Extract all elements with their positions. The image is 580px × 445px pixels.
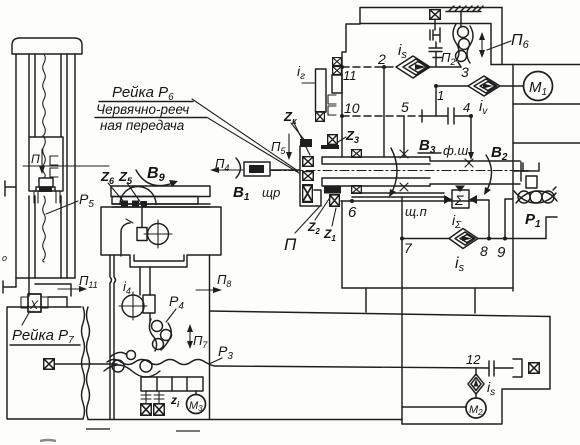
gear pair on shaft 10 [448, 108, 471, 124]
svg-text:iv: iv [479, 98, 488, 117]
wire saddle to clutch [149, 267, 151, 321]
screw П6 balls [458, 27, 469, 38]
bed line y64 [491, 64, 580, 66]
svg-text:4: 4 [463, 100, 470, 115]
nut link line [48, 297, 67, 307]
arrow П4 [216, 169, 243, 171]
svg-text:5: 5 [401, 99, 409, 115]
fixed wall hatch [446, 6, 483, 12]
wall bracket upper left [5, 181, 16, 196]
Z1 leader [332, 208, 336, 226]
П6 leader [487, 41, 511, 50]
node 7 [400, 237, 404, 241]
clutch stem b [154, 391, 164, 403]
wire iv to M1 [500, 85, 523, 87]
bed edge vertical [512, 65, 514, 292]
node ф.ш mark [465, 159, 473, 167]
svg-text:i4: i4 [123, 279, 131, 296]
svg-text:12: 12 [466, 352, 481, 367]
rack pinion b [140, 360, 152, 372]
summator right triangle [469, 195, 477, 204]
variator iv [468, 76, 500, 96]
clutch bars shaft 12 [489, 361, 513, 376]
svg-text:ная передача: ная передача [100, 118, 185, 133]
screw П6 waves [453, 24, 473, 67]
gear pair bars [429, 48, 442, 52]
gear i4 [122, 295, 144, 317]
svg-text:P1: P1 [525, 211, 541, 230]
head bearing 2 [303, 172, 314, 181]
table slab upper [111, 186, 210, 197]
wire M2 to shaft [402, 406, 466, 408]
arrow П7 [189, 330, 191, 343]
saddle notch inner [134, 255, 184, 261]
worm P1 waves [514, 187, 557, 203]
worm P4 waves [149, 319, 171, 351]
nut bracket [21, 297, 48, 308]
Z6 leader [108, 183, 124, 202]
table gear dark block b [132, 201, 139, 207]
wire is to 3 [430, 66, 461, 68]
P7 label leader [22, 311, 30, 325]
rotation arc В9 [136, 170, 173, 186]
wire 7 to is [402, 238, 449, 240]
summator box [452, 190, 469, 208]
svg-text:7: 7 [404, 240, 413, 256]
spindle body left section [322, 157, 430, 186]
node 4 [469, 114, 473, 118]
svg-text:8: 8 [480, 243, 488, 259]
bed line y104 [513, 103, 580, 105]
bottom right box [402, 317, 550, 425]
motor M1 [524, 72, 553, 101]
gear mark top [400, 150, 408, 158]
arrow П8 [196, 289, 216, 291]
apron left wall [110, 255, 112, 419]
column inner wall c [60, 54, 62, 278]
slider bracket [36, 187, 55, 191]
bed line y143 [513, 142, 580, 144]
column base line [16, 277, 75, 279]
motor M3 [187, 395, 206, 414]
wire saddle to gear [139, 267, 141, 295]
carriage arrow down [41, 149, 43, 170]
carriage centerline [23, 165, 109, 167]
spindle centerline [272, 170, 528, 172]
wire is to 8 9 [478, 238, 546, 240]
svg-text:9: 9 [497, 244, 506, 261]
svg-text:M2: M2 [469, 404, 483, 417]
wire node4 down to spindle [470, 116, 472, 154]
head lower housing [314, 190, 321, 206]
ir link block [332, 75, 342, 93]
leadscrew P5 wavy [43, 54, 46, 262]
connector below feed box b [474, 288, 476, 313]
variator is middle [449, 229, 478, 249]
nut half clutch lower [50, 168, 58, 177]
worm P4 balls [152, 321, 163, 332]
variator is top [396, 56, 430, 78]
saddle gear circle [148, 224, 169, 245]
gear ir tall [316, 69, 327, 112]
table gear dark block c [141, 201, 147, 207]
rack P7 box [7, 307, 83, 419]
base step lines [16, 278, 71, 296]
feed box top line [341, 200, 475, 202]
svg-text:Рейка P6: Рейка P6 [112, 84, 174, 103]
column inner wall b [34, 54, 36, 278]
underline 2 [95, 117, 207, 119]
node 10 [340, 114, 344, 118]
rack P3 wavy line [107, 360, 489, 369]
wall bracket lower left [3, 281, 16, 293]
spindle bearing bottom left [352, 186, 362, 194]
column foot right [56, 191, 60, 203]
saddle pipe hook [121, 223, 130, 256]
svg-text:P5: P5 [79, 191, 94, 210]
svg-text:zi: zi [170, 393, 180, 409]
rack P7 wavy edge [82, 307, 90, 419]
cone clutch П2 [430, 28, 440, 42]
svg-text:Z5: Z5 [118, 169, 133, 186]
long line mid [210, 311, 551, 317]
leader Рейка Р6 line 1 [192, 99, 298, 171]
worm shaft vertical [141, 208, 143, 227]
gearbox outline right [501, 8, 503, 65]
top bearing [430, 10, 441, 20]
svg-text:1: 1 [437, 88, 444, 103]
wire node5 down [403, 116, 405, 157]
column inner wall a [28, 54, 30, 296]
hob bracket [523, 163, 539, 171]
svg-text:Рейка Р7: Рейка Р7 [12, 327, 74, 346]
P4 leader [166, 309, 176, 322]
slider dark block [39, 188, 52, 193]
head bearing 1 [303, 157, 314, 167]
variator bottom [468, 374, 484, 394]
Zк leader b [294, 123, 310, 155]
spindle head plate [300, 146, 320, 206]
spindle body right section [430, 157, 520, 186]
shaft 11-2 dashed [342, 66, 396, 68]
svg-text:P4: P4 [169, 293, 184, 312]
bearing box on P7 line [44, 359, 55, 370]
svg-text:П7: П7 [193, 333, 208, 350]
feed gear box dividers [157, 377, 187, 391]
rotation arc В2 [486, 155, 492, 192]
gear bar under Z3 [321, 145, 339, 149]
table gear dark block a [121, 201, 128, 207]
underline 1 [99, 101, 193, 103]
spindle end flange [514, 162, 528, 181]
svg-text:В2: В2 [491, 144, 508, 163]
gear Z2 dark [324, 186, 341, 194]
wall bearing [529, 363, 540, 374]
variator stem up [475, 368, 477, 374]
svg-text:В9: В9 [147, 165, 166, 184]
shaft 10 dashed [342, 115, 422, 117]
node 8 [487, 237, 491, 241]
arrow П6 updown [481, 38, 483, 52]
wire 1 to iv [436, 85, 468, 87]
svg-text:П: П [31, 152, 40, 166]
feed gear box [141, 377, 203, 391]
summator top triangle [455, 186, 465, 193]
clutch stem a [141, 391, 151, 403]
stem [435, 42, 437, 48]
slider cap [39, 178, 53, 187]
Z5 leader [127, 183, 141, 203]
node 6 [350, 199, 354, 203]
svg-text:is: is [487, 379, 495, 398]
column outer right wall [74, 54, 76, 278]
svg-text:П6: П6 [511, 32, 530, 51]
svg-text:M1: M1 [529, 79, 547, 98]
svg-text:П: П [284, 235, 297, 254]
rotation arc В3 [391, 148, 397, 194]
svg-text:10: 10 [344, 100, 360, 116]
bearing a [141, 404, 152, 415]
long vertical shaft 7 [401, 197, 403, 424]
bearing Z3 [328, 135, 338, 145]
svg-text:X: X [29, 298, 39, 312]
svg-text:o: o [2, 253, 7, 263]
node 9 [503, 237, 507, 241]
column outer left wall [15, 54, 17, 278]
shaft end bar [421, 110, 423, 122]
connector below feed box a [365, 288, 367, 312]
screw nut X-box [28, 294, 41, 312]
Z3 leader [338, 137, 346, 142]
motor M3 stem [195, 391, 197, 394]
В3 underline [418, 152, 441, 154]
gear Zк dark [300, 139, 312, 147]
dog box щр [244, 162, 270, 176]
summator left triangle [444, 195, 452, 204]
nut half clutch upper [50, 156, 58, 165]
leader Рейка Р6 line 2 [208, 118, 299, 173]
svg-text:is: is [398, 42, 407, 61]
svg-text:Z6: Z6 [100, 169, 115, 186]
node 11 [340, 65, 344, 69]
gear mark bottom [400, 183, 408, 191]
svg-text:В1: В1 [233, 184, 250, 203]
column inner wall d [66, 54, 68, 278]
svg-text:Z1: Z1 [323, 227, 336, 243]
spindle bearing top left [352, 150, 362, 158]
column cap [12, 38, 82, 54]
svg-text:ф.ш: ф.ш [443, 143, 468, 158]
svg-text:M3: M3 [189, 400, 203, 413]
underline P7 [10, 344, 80, 346]
Zк leader a [291, 123, 306, 142]
svg-text:11: 11 [343, 68, 357, 83]
svg-text:6: 6 [348, 204, 357, 221]
wire P7 to apron [55, 363, 117, 365]
bearing under Z2 [330, 195, 340, 206]
node 1 [434, 84, 438, 88]
clutch block [143, 295, 155, 313]
worm wheel dome [120, 187, 156, 205]
feed box left edge [341, 201, 343, 288]
hob holder box [526, 176, 537, 188]
worm P1 circles [518, 191, 530, 203]
vertical screw П6 stem [460, 12, 462, 27]
svg-text:Σ: Σ [454, 192, 464, 208]
wire 1 down [422, 86, 448, 116]
svg-text:щ.п: щ.п [405, 204, 427, 219]
П leader [295, 206, 320, 233]
lower rail housing [352, 193, 444, 197]
bottom long line [88, 419, 402, 421]
scan smudge a [86, 428, 110, 430]
carriage box on column [29, 137, 63, 191]
table slab lower [112, 197, 198, 205]
svg-text:Червячно-рееч: Червячно-рееч [96, 102, 189, 117]
feed box bottom [342, 287, 513, 289]
svg-text:П8: П8 [217, 272, 231, 289]
svg-text:iг: iг [297, 63, 305, 82]
wire щр to spindle [270, 169, 299, 171]
svg-text:Z2: Z2 [307, 220, 320, 236]
bearing b [154, 404, 165, 415]
ir shaft line [302, 82, 315, 84]
ir bearing top pair [333, 58, 342, 66]
P5 leader [46, 201, 78, 214]
rack pinion small [127, 351, 136, 360]
svg-text:Zк: Zк [283, 109, 297, 126]
stem to shaft 2 [433, 52, 442, 68]
gearbox outline left [342, 8, 502, 158]
ir bearing bottom [316, 112, 325, 122]
P3 leader [209, 358, 222, 364]
saddle coupling block [137, 228, 147, 241]
svg-text:is: is [455, 255, 465, 274]
arrow П5 down [288, 134, 290, 155]
apron right wall [209, 255, 211, 419]
svg-text:Z3: Z3 [345, 128, 359, 145]
ir jaw clutch [328, 95, 336, 115]
rack wave under [104, 352, 160, 377]
variator stem down [475, 394, 477, 398]
wire 9 up [505, 199, 513, 239]
svg-text:щр: щр [262, 185, 280, 200]
rack pinion a [112, 360, 124, 372]
svg-text:П5: П5 [271, 139, 286, 156]
gearbox inner top line [360, 24, 491, 65]
scan smudge c [40, 440, 56, 441]
Z2 leader [315, 196, 331, 220]
vertical stem top [434, 20, 436, 30]
svg-text:3: 3 [461, 64, 469, 80]
apron left wall b [114, 255, 116, 419]
node 2 [382, 65, 386, 69]
dog box inner block [249, 165, 264, 173]
svg-text:П2: П2 [441, 50, 455, 67]
rotation arc В1 [236, 158, 241, 178]
head bearing 3 [303, 185, 313, 202]
corner bracket right [546, 217, 557, 239]
saddle body [101, 207, 221, 267]
arrow П11 [58, 288, 82, 290]
svg-text:iΣ: iΣ [452, 212, 462, 231]
wire node2 down [383, 67, 385, 157]
motor M2 [466, 398, 486, 418]
wire summator to node 8 [477, 200, 489, 239]
column foot left [34, 191, 38, 203]
end bracket [513, 359, 522, 377]
svg-text:2: 2 [377, 51, 386, 67]
scan smudge b [176, 430, 200, 432]
